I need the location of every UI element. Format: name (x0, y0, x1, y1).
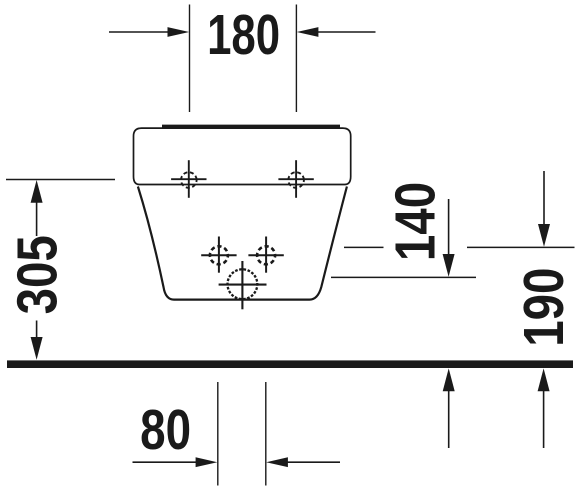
svg-text:140: 140 (385, 182, 448, 261)
svg-text:305: 305 (7, 235, 70, 314)
svg-text:190: 190 (513, 268, 576, 347)
svg-text:80: 80 (140, 397, 191, 461)
svg-text:180: 180 (207, 3, 280, 67)
